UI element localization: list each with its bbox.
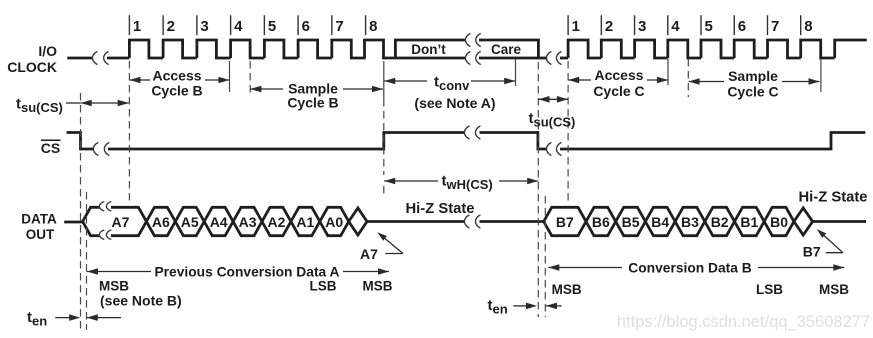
svg-text:A0: A0 — [325, 214, 343, 230]
svg-text:6: 6 — [738, 18, 746, 35]
svg-text:B3: B3 — [681, 214, 699, 230]
svg-text:A2: A2 — [267, 214, 285, 230]
svg-text:A5: A5 — [181, 214, 199, 230]
svg-text:4: 4 — [671, 18, 680, 35]
svg-text:8: 8 — [369, 18, 377, 35]
svg-text:1: 1 — [572, 18, 580, 35]
svg-text:Care: Care — [491, 42, 522, 57]
svg-text:OUT: OUT — [26, 227, 55, 242]
svg-text:Previous Conversion Data A: Previous Conversion Data A — [154, 264, 339, 279]
svg-text:LSB: LSB — [310, 278, 337, 293]
svg-text:7: 7 — [335, 18, 343, 35]
svg-text:Hi-Z State: Hi-Z State — [405, 201, 474, 217]
svg-text:Cycle C: Cycle C — [727, 84, 778, 100]
svg-text:https://blog.csdn.net/qq_35608: https://blog.csdn.net/qq_35608277 — [617, 313, 870, 331]
svg-text:Don’t: Don’t — [411, 42, 446, 57]
svg-text:Access: Access — [152, 68, 201, 84]
svg-text:Sample: Sample — [728, 68, 778, 84]
svg-text:MSB: MSB — [363, 278, 393, 293]
svg-text:I/O: I/O — [38, 43, 57, 59]
svg-text:B6: B6 — [592, 214, 610, 230]
svg-text:Access: Access — [594, 67, 643, 83]
svg-text:3: 3 — [200, 18, 208, 35]
svg-text:Cycle C: Cycle C — [593, 83, 644, 99]
svg-text:1: 1 — [133, 18, 141, 35]
svg-text:A1: A1 — [296, 214, 314, 230]
svg-text:7: 7 — [771, 18, 779, 35]
svg-text:B5: B5 — [622, 214, 640, 230]
svg-text:A6: A6 — [152, 214, 170, 230]
svg-text:A4: A4 — [210, 214, 228, 230]
svg-text:A3: A3 — [239, 214, 257, 230]
svg-text:B0: B0 — [770, 214, 788, 230]
svg-text:B2: B2 — [711, 214, 729, 230]
svg-text:5: 5 — [705, 18, 713, 35]
svg-text:B4: B4 — [651, 214, 669, 230]
svg-text:(see Note B): (see Note B) — [100, 293, 182, 309]
svg-text:Cycle B: Cycle B — [151, 83, 202, 99]
svg-text:2: 2 — [167, 18, 175, 35]
svg-text:A7: A7 — [112, 214, 130, 230]
svg-text:B7: B7 — [556, 214, 574, 230]
svg-text:LSB: LSB — [756, 282, 783, 297]
svg-text:Cycle B: Cycle B — [287, 95, 338, 111]
svg-text:CLOCK: CLOCK — [7, 59, 57, 75]
svg-text:B1: B1 — [740, 214, 758, 230]
svg-text:MSB: MSB — [552, 282, 582, 297]
svg-text:Hi-Z State: Hi-Z State — [798, 190, 867, 206]
svg-text:MSB: MSB — [99, 278, 129, 293]
svg-text:8: 8 — [804, 18, 812, 35]
svg-text:2: 2 — [605, 18, 613, 35]
svg-text:A7: A7 — [360, 246, 378, 262]
svg-text:3: 3 — [638, 18, 646, 35]
svg-text:(see Note A): (see Note A) — [414, 95, 495, 111]
svg-text:MSB: MSB — [819, 282, 849, 297]
svg-text:6: 6 — [302, 18, 310, 35]
svg-text:B7: B7 — [803, 244, 821, 260]
svg-text:4: 4 — [234, 18, 243, 35]
svg-text:Conversion Data B: Conversion Data B — [628, 260, 751, 275]
svg-text:CS: CS — [41, 140, 60, 156]
svg-text:5: 5 — [268, 18, 276, 35]
svg-text:DATA: DATA — [21, 212, 57, 227]
